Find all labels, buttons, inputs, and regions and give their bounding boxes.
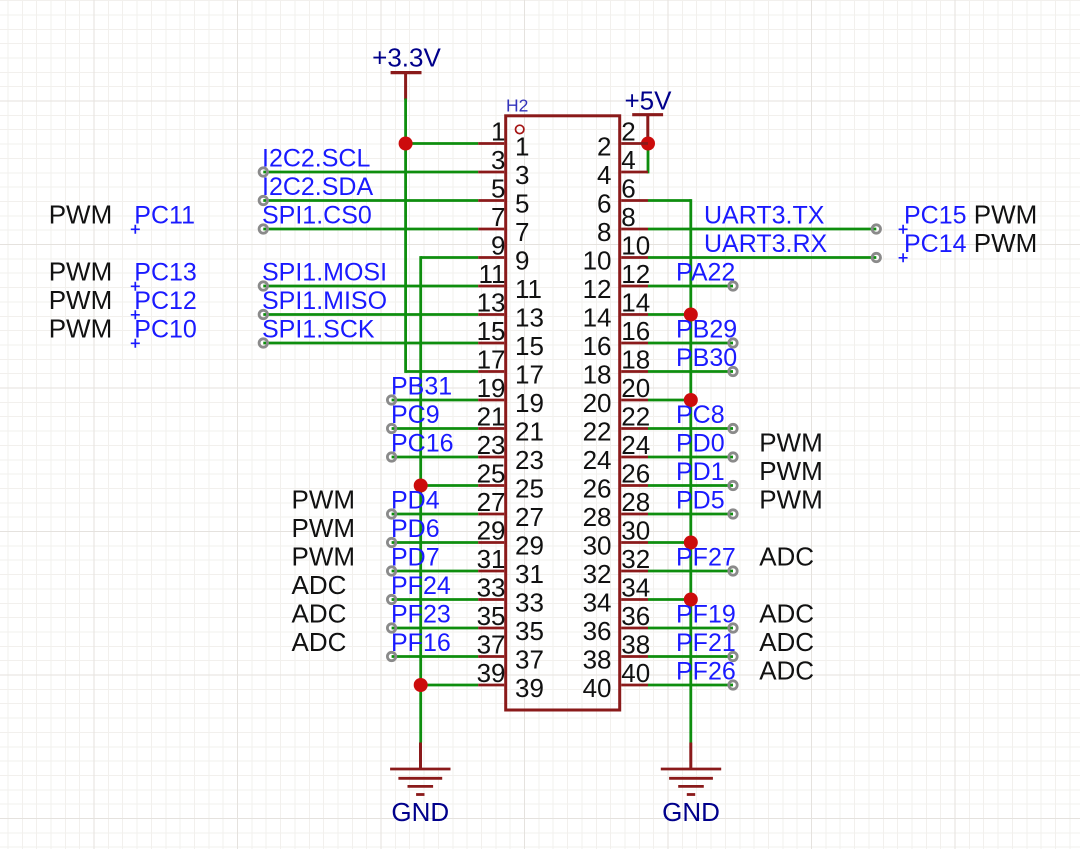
svg-text:10: 10 [583, 246, 612, 276]
svg-text:13: 13 [515, 303, 544, 333]
svg-text:23: 23 [477, 430, 506, 460]
svg-text:PB29: PB29 [676, 316, 737, 344]
pin 35 stub [478, 627, 504, 630]
pin 38 stub [621, 655, 648, 658]
svg-text:17: 17 [515, 360, 544, 390]
wire net PD5 (pin 28) [648, 513, 733, 516]
wire net PF16 (pin 37) [392, 655, 479, 658]
svg-text:PC13: PC13 [134, 259, 197, 287]
wire net PD0 (pin 24) [648, 456, 733, 459]
junction +3.3V pin1 [399, 137, 413, 151]
svg-text:12: 12 [621, 259, 650, 289]
svg-text:12: 12 [583, 274, 612, 304]
svg-text:20: 20 [583, 388, 612, 418]
svg-text:18: 18 [621, 345, 650, 375]
wire net PD6 (pin 29) [392, 541, 479, 544]
pin 15 stub [478, 342, 504, 345]
pin 25 stub [478, 484, 504, 487]
svg-text:PD4: PD4 [391, 487, 440, 515]
svg-text:UART3.TX: UART3.TX [704, 202, 825, 230]
pin 17 stub [478, 370, 504, 373]
pin 28 stub [621, 513, 648, 516]
svg-text:14: 14 [583, 303, 612, 333]
svg-text:18: 18 [583, 360, 612, 390]
wire net PD1 (pin 26) [648, 484, 733, 487]
svg-text:I2C2.SCL: I2C2.SCL [262, 145, 370, 173]
svg-text:PD5: PD5 [676, 487, 725, 515]
junction GND-right pin14 [684, 308, 698, 322]
label net PC12 (floating) [131, 287, 197, 319]
svg-text:PD6: PD6 [391, 515, 440, 543]
svg-text:PD0: PD0 [676, 430, 725, 458]
svg-text:PC12: PC12 [134, 287, 197, 315]
svg-text:PF19: PF19 [676, 601, 736, 629]
svg-text:17: 17 [477, 345, 506, 375]
svg-text:PA22: PA22 [676, 259, 735, 287]
svg-text:16: 16 [583, 331, 612, 361]
svg-text:28: 28 [621, 487, 650, 517]
svg-text:31: 31 [515, 559, 544, 589]
wire net I2C2.SDA (pin 5) [263, 199, 478, 202]
wire net PB31 (pin 19) [392, 399, 479, 402]
wire pin 34 to GND rail [648, 598, 691, 601]
svg-text:PF27: PF27 [676, 544, 736, 572]
wire net PC8 (pin 22) [648, 427, 733, 430]
wire pin 9 to GND rail [421, 256, 479, 259]
svg-text:19: 19 [477, 373, 506, 403]
svg-text:7: 7 [491, 202, 505, 232]
pin 33 stub [478, 598, 504, 601]
svg-text:31: 31 [477, 544, 506, 574]
svg-text:I2C2.SDA: I2C2.SDA [262, 173, 373, 201]
svg-text:+3.3V: +3.3V [372, 43, 441, 73]
label net PC15 (floating) [899, 202, 967, 234]
pin 4 stub [621, 171, 648, 174]
svg-text:7: 7 [515, 217, 529, 247]
svg-text:PWM: PWM [49, 314, 113, 344]
wire pin 30 to GND rail [648, 541, 691, 544]
svg-text:6: 6 [597, 189, 611, 219]
junction GND-right pin20 [684, 393, 698, 407]
pin 1 stub [478, 142, 504, 145]
pin 16 stub [621, 342, 648, 345]
svg-text:21: 21 [477, 402, 506, 432]
svg-text:11: 11 [479, 259, 506, 289]
pin 34 stub [621, 598, 648, 601]
label net PC10 (floating) [131, 316, 197, 348]
svg-text:21: 21 [515, 417, 544, 447]
svg-text:16: 16 [621, 316, 650, 346]
svg-text:4: 4 [597, 160, 611, 190]
wire +5V to pin 4 [647, 144, 650, 174]
svg-text:ADC: ADC [292, 599, 347, 629]
pin 9 stub [478, 256, 504, 259]
svg-text:38: 38 [583, 645, 612, 675]
svg-text:PWM: PWM [49, 285, 113, 315]
svg-text:PWM: PWM [759, 428, 823, 458]
svg-text:PC10: PC10 [134, 316, 197, 344]
pin 37 stub [478, 655, 504, 658]
svg-text:28: 28 [583, 502, 612, 532]
pin 12 stub [621, 285, 648, 288]
svg-text:35: 35 [477, 601, 506, 631]
svg-text:PF24: PF24 [391, 572, 451, 600]
svg-text:2: 2 [621, 117, 635, 147]
svg-text:PC11: PC11 [134, 202, 195, 230]
svg-text:PWM: PWM [292, 485, 356, 515]
svg-text:22: 22 [621, 402, 650, 432]
svg-text:23: 23 [515, 445, 544, 475]
wire net PD4 (pin 27) [392, 513, 479, 516]
svg-text:PWM: PWM [49, 257, 113, 287]
svg-text:5: 5 [515, 189, 529, 219]
svg-text:3: 3 [491, 145, 505, 175]
svg-text:36: 36 [583, 616, 612, 646]
svg-text:2: 2 [597, 132, 611, 162]
svg-text:26: 26 [621, 459, 650, 489]
svg-text:PWM: PWM [974, 200, 1038, 230]
svg-text:22: 22 [583, 417, 612, 447]
svg-text:PWM: PWM [292, 513, 356, 543]
ground GND-left symbol [390, 743, 450, 828]
svg-text:9: 9 [515, 246, 529, 276]
pin 10 stub [621, 256, 648, 259]
svg-text:SPI1.CS0: SPI1.CS0 [262, 202, 372, 230]
svg-text:PB30: PB30 [676, 344, 737, 372]
wire net PF26 (pin 40) [648, 684, 733, 687]
wire net PF24 (pin 33) [392, 598, 479, 601]
wire +3.3V rail vertical [404, 99, 407, 373]
svg-text:GND: GND [391, 797, 449, 827]
pin 30 stub [621, 541, 648, 544]
svg-text:10: 10 [621, 231, 650, 261]
svg-text:33: 33 [477, 573, 506, 603]
svg-text:PC9: PC9 [391, 401, 440, 429]
wire net PF27 (pin 32) [648, 570, 733, 573]
junction GND-left pin39 [414, 678, 428, 692]
svg-text:33: 33 [515, 588, 544, 618]
svg-text:30: 30 [583, 531, 612, 561]
svg-text:8: 8 [597, 217, 611, 247]
power +5V symbol [625, 86, 673, 144]
ground GND-right symbol [661, 743, 721, 828]
wire net PF19 (pin 36) [648, 627, 733, 630]
label net PC11 (floating) [131, 202, 195, 234]
pin 29 stub [478, 541, 504, 544]
svg-text:PD1: PD1 [676, 458, 725, 486]
svg-text:PWM: PWM [759, 485, 823, 515]
wire net I2C2.SCL (pin 3) [263, 171, 478, 174]
svg-text:ADC: ADC [292, 570, 347, 600]
svg-text:ADC: ADC [292, 627, 347, 657]
pin 6 stub [621, 199, 648, 202]
svg-text:PB31: PB31 [391, 373, 452, 401]
svg-text:5: 5 [491, 174, 505, 204]
wire GND-right rail vertical [689, 199, 692, 742]
wire net UART3.TX (pin 8) [648, 228, 876, 231]
svg-text:UART3.RX: UART3.RX [704, 230, 828, 258]
svg-text:36: 36 [621, 601, 650, 631]
svg-text:1: 1 [515, 132, 529, 162]
wire net PF21 (pin 38) [648, 655, 733, 658]
pin 21 stub [478, 427, 504, 430]
svg-text:PWM: PWM [292, 542, 356, 572]
svg-text:37: 37 [515, 645, 544, 675]
wire net PC16 (pin 23) [392, 456, 479, 459]
svg-text:26: 26 [583, 474, 612, 504]
svg-text:37: 37 [477, 630, 506, 660]
svg-text:1: 1 [491, 117, 505, 147]
svg-text:14: 14 [621, 288, 650, 318]
wire pin 25 to GND rail [421, 484, 479, 487]
junction GND-left pin25 [414, 479, 428, 493]
svg-text:PWM: PWM [974, 228, 1038, 258]
svg-text:3: 3 [515, 160, 529, 190]
svg-text:39: 39 [515, 673, 544, 703]
svg-text:PWM: PWM [759, 456, 823, 486]
wire pin 14 to GND rail [648, 313, 691, 316]
pin 18 stub [621, 370, 648, 373]
svg-text:29: 29 [477, 516, 506, 546]
pin 39 stub [478, 684, 504, 687]
wire net SPI1.MOSI (pin 11) [263, 285, 478, 288]
svg-text:27: 27 [515, 502, 544, 532]
svg-text:PC14: PC14 [904, 230, 967, 258]
svg-text:6: 6 [621, 174, 635, 204]
wire +3.3V to pin 17 [406, 370, 479, 373]
svg-text:ADC: ADC [759, 542, 814, 572]
svg-text:24: 24 [621, 430, 650, 460]
pin 23 stub [478, 456, 504, 459]
svg-text:PD7: PD7 [391, 544, 440, 572]
svg-text:ADC: ADC [759, 627, 814, 657]
pin 24 stub [621, 456, 648, 459]
svg-text:30: 30 [621, 516, 650, 546]
svg-text:32: 32 [583, 559, 612, 589]
svg-text:20: 20 [621, 373, 650, 403]
svg-text:PC15: PC15 [904, 202, 967, 230]
svg-text:27: 27 [477, 487, 506, 517]
svg-text:25: 25 [515, 474, 544, 504]
wire net PB29 (pin 16) [648, 342, 733, 345]
wire pin 39 to GND rail [421, 684, 479, 687]
pin 20 stub [621, 399, 648, 402]
wire pin 6 to GND rail [648, 199, 691, 202]
svg-text:PWM: PWM [49, 200, 113, 230]
connector H2 body [506, 116, 620, 710]
svg-text:ADC: ADC [759, 599, 814, 629]
svg-text:13: 13 [477, 288, 506, 318]
pin 7 stub [478, 228, 504, 231]
pin 40 stub [621, 684, 648, 687]
pin 8 stub [621, 228, 648, 231]
pin 31 stub [478, 570, 504, 573]
svg-text:PC8: PC8 [676, 401, 725, 429]
pin 19 stub [478, 399, 504, 402]
power +3.3V symbol [372, 43, 441, 100]
wire net PD7 (pin 31) [392, 570, 479, 573]
pin 5 stub [478, 199, 504, 202]
pin 32 stub [621, 570, 648, 573]
pin 13 stub [478, 313, 504, 316]
pin 26 stub [621, 484, 648, 487]
svg-text:15: 15 [477, 316, 506, 346]
svg-text:SPI1.MOSI: SPI1.MOSI [262, 259, 387, 287]
pin-1 marker circle [516, 125, 524, 133]
wire net PC9 (pin 21) [392, 427, 479, 430]
wire pin 20 to GND rail [648, 399, 691, 402]
svg-text:SPI1.MISO: SPI1.MISO [262, 287, 387, 315]
svg-text:40: 40 [621, 658, 650, 688]
pin 2 stub [621, 142, 648, 145]
svg-text:34: 34 [621, 573, 650, 603]
pin 27 stub [478, 513, 504, 516]
wire net SPI1.CS0 (pin 7) [263, 228, 478, 231]
svg-text:40: 40 [583, 673, 612, 703]
wire GND-left rail vertical [419, 256, 422, 742]
svg-text:PF23: PF23 [391, 601, 451, 629]
svg-text:ADC: ADC [759, 656, 814, 686]
wire net SPI1.MISO (pin 13) [263, 313, 478, 316]
svg-text:H2: H2 [506, 96, 528, 116]
label net PC14 (floating) [899, 230, 967, 262]
svg-text:PC16: PC16 [391, 430, 454, 458]
svg-text:SPI1.SCK: SPI1.SCK [262, 316, 375, 344]
label net PC13 (floating) [131, 259, 197, 291]
svg-text:4: 4 [621, 145, 635, 175]
svg-text:PF16: PF16 [391, 629, 451, 657]
svg-text:35: 35 [515, 616, 544, 646]
svg-text:34: 34 [583, 588, 612, 618]
wire net PF23 (pin 35) [392, 627, 479, 630]
svg-text:25: 25 [477, 459, 506, 489]
junction +5V pin2 [641, 137, 655, 151]
svg-text:38: 38 [621, 630, 650, 660]
svg-text:GND: GND [662, 797, 720, 827]
wire +3.3V to pin 1 [406, 142, 479, 145]
junction GND-right pin34 [684, 593, 698, 607]
pin 36 stub [621, 627, 648, 630]
svg-text:PF21: PF21 [676, 629, 736, 657]
svg-text:PF26: PF26 [676, 658, 736, 686]
svg-text:19: 19 [515, 388, 544, 418]
svg-text:+5V: +5V [625, 86, 673, 116]
svg-text:11: 11 [515, 274, 542, 304]
pin 22 stub [621, 427, 648, 430]
pin 11 stub [478, 285, 504, 288]
wire net PA22 (pin 12) [648, 285, 733, 288]
pin 3 stub [478, 171, 504, 174]
wire net SPI1.SCK (pin 15) [263, 342, 478, 345]
svg-text:39: 39 [477, 658, 506, 688]
svg-text:15: 15 [515, 331, 544, 361]
junction GND-right pin30 [684, 536, 698, 550]
wire net PB30 (pin 18) [648, 370, 733, 373]
svg-text:8: 8 [621, 202, 635, 232]
pin 14 stub [621, 313, 648, 316]
svg-text:29: 29 [515, 531, 544, 561]
svg-text:24: 24 [583, 445, 612, 475]
wire net UART3.RX (pin 10) [648, 256, 876, 259]
svg-text:32: 32 [621, 544, 650, 574]
svg-text:9: 9 [491, 231, 505, 261]
